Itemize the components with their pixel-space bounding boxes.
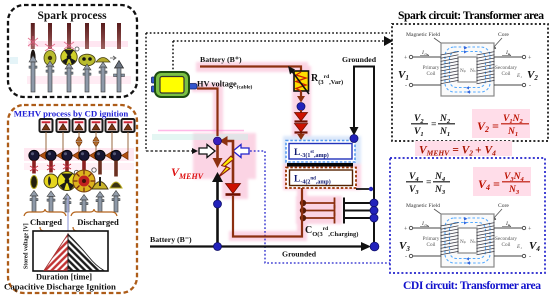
CD charge symbol 3 bbox=[73, 119, 86, 132]
graph discharged area (black hatch) bbox=[68, 234, 104, 271]
capacitor bank right plates bbox=[344, 198, 374, 224]
arrowhead into junction (left) bbox=[220, 136, 228, 146]
svg-text:Spark process: Spark process bbox=[37, 10, 107, 22]
junction dot battery/electrode bbox=[214, 243, 222, 251]
black dashed pointer to spark gap bbox=[146, 148, 198, 154]
arrow down from resistor bbox=[297, 91, 305, 103]
MEHV plug 5 bbox=[92, 150, 112, 212]
svg-text:V2: V2 bbox=[527, 69, 538, 82]
svg-text:Charged: Charged bbox=[30, 217, 62, 227]
inductor box L-3 (1st amp) bbox=[286, 141, 355, 163]
white block arrow left (CDI indicator) bbox=[233, 145, 249, 158]
spark process box border bbox=[8, 5, 137, 97]
arrow into L-3 box bbox=[297, 133, 305, 140]
wire right branch from junction bbox=[227, 141, 233, 183]
spark plug 3 (spark process) bbox=[61, 23, 79, 92]
svg-text:=: = bbox=[431, 120, 436, 130]
MEHV title bbox=[14, 109, 129, 119]
svg-text:Stored voltage [V]: Stored voltage [V] bbox=[24, 223, 30, 269]
caption capacitive discharge ignition bbox=[4, 282, 116, 292]
svg-text:Spark circuit: Transformer are: Spark circuit: Transformer area bbox=[398, 9, 544, 22]
label discharged bbox=[77, 217, 119, 227]
feed lines from CD symbols bbox=[46, 132, 128, 153]
svg-text:CDI circuit: Transformer area: CDI circuit: Transformer area bbox=[403, 279, 541, 292]
wire battery B- (ground rail) bbox=[150, 242, 371, 251]
label charged bbox=[30, 217, 62, 227]
brace discharged bbox=[71, 209, 117, 216]
label R(3rd, Var) bbox=[311, 73, 343, 86]
svg-text:V4: V4 bbox=[529, 240, 540, 253]
pink highlight glows for circuit wires bbox=[192, 62, 361, 241]
svg-text:Grounded: Grounded bbox=[282, 250, 317, 259]
equation V2 = V1N2/N1 (red) bbox=[472, 109, 530, 138]
junction node (HV) bbox=[214, 137, 222, 145]
label Grounded (top) bbox=[342, 55, 377, 64]
label HV voltage(cable) bbox=[197, 80, 252, 91]
CDI circuit panel border bbox=[390, 158, 545, 273]
svg-text:Discharged: Discharged bbox=[77, 217, 119, 227]
label C(3rd, Charging) bbox=[305, 225, 358, 238]
ignition device (HV generator) bbox=[152, 72, 198, 97]
brace pointers to graph bbox=[40, 227, 89, 234]
spark plug 2 (spark process) bbox=[44, 23, 56, 92]
ground wire top (pi shape) bbox=[354, 67, 374, 247]
MEHV plug 6 bbox=[110, 150, 128, 212]
decorative highlighter bands near junction bbox=[152, 131, 248, 141]
diode D1 (red) bbox=[295, 110, 308, 122]
spark plug 6 (spark process) bbox=[114, 23, 125, 92]
spark plug 4 (spark process) bbox=[79, 23, 95, 92]
wire battery B+ bbox=[200, 67, 301, 72]
svg-text:Battery (B⁺): Battery (B⁺) bbox=[200, 55, 242, 64]
CD charge symbol 2 bbox=[57, 119, 70, 132]
diode D3 (red) at gap branch bbox=[226, 184, 241, 195]
CD charge symbol 5 bbox=[106, 119, 119, 132]
MEHV plug 4 bbox=[73, 150, 96, 212]
junction dot ground rail end bbox=[370, 242, 379, 251]
decorative pink marks spark box bbox=[10, 41, 131, 84]
label V1 bbox=[398, 69, 409, 82]
wire L-4 to ground bus bbox=[356, 187, 374, 191]
equation V4 = V3N4/N3 (red) bbox=[473, 167, 531, 196]
spark circuit panel title bbox=[398, 9, 544, 22]
equation V2/V1 = N2/N1 bbox=[411, 114, 455, 138]
svg-text:V3: V3 bbox=[409, 185, 419, 196]
discharge arrows under symbols 3 and 4 bbox=[76, 136, 99, 147]
junction dot at L-3 ground bbox=[350, 135, 358, 143]
capacitor bank left junction dots bbox=[300, 200, 306, 221]
transformer core bar bbox=[287, 163, 353, 167]
variable resistor R(3rd,Var) bbox=[288, 66, 309, 94]
equation V_MEHV = V2 + V4 bbox=[415, 141, 512, 158]
MEHV plug 3 bbox=[58, 150, 80, 212]
MEHV plug 2 bbox=[44, 150, 63, 212]
svg-text:V1: V1 bbox=[398, 69, 409, 82]
label Battery (B-) bbox=[150, 235, 192, 244]
label Battery (B+) bbox=[200, 55, 242, 64]
equation V4/V3 = N4/N3 bbox=[406, 172, 450, 196]
charged/discharged divider line bbox=[67, 196, 69, 234]
spark lightning bolt bbox=[218, 156, 234, 178]
spark plug 1 (spark process) bbox=[28, 23, 38, 92]
blue dotted link to CDI panel bbox=[250, 151, 390, 263]
graph y-axis label bbox=[24, 223, 30, 269]
svg-text:Capacitive Discharge Ignition: Capacitive Discharge Ignition bbox=[4, 282, 116, 292]
arrowhead into spark panel bbox=[384, 36, 393, 46]
spark process title bbox=[37, 10, 107, 22]
decorative pink band MEHV bbox=[24, 148, 134, 170]
diode D2 (red) bbox=[295, 124, 308, 133]
brace charged bbox=[24, 209, 66, 216]
svg-text:N1: N1 bbox=[439, 127, 450, 138]
label V2 bbox=[527, 69, 538, 82]
svg-text:N3: N3 bbox=[434, 185, 446, 196]
svg-text:R(3rd,Var): R(3rd,Var) bbox=[311, 73, 343, 86]
spark circuit panel border bbox=[392, 24, 548, 141]
svg-text:V3: V3 bbox=[399, 240, 410, 253]
CD charge symbol 4 bbox=[90, 119, 103, 132]
dotted probe line to spark circuit panel (top) bbox=[146, 33, 390, 151]
label V_MEHV bbox=[171, 165, 204, 181]
wire HV cable bbox=[197, 89, 218, 137]
label V4 bbox=[529, 240, 540, 253]
junction dot on electrode wire bbox=[214, 200, 222, 208]
wire capacitor feed (brown loop) bbox=[233, 188, 302, 237]
svg-text:Duration [time]: Duration [time] bbox=[36, 273, 92, 282]
svg-text:V1: V1 bbox=[414, 127, 424, 138]
MEHV process box border bbox=[8, 105, 137, 293]
svg-text:Grounded: Grounded bbox=[342, 55, 377, 64]
graph charged area (red hatch) bbox=[44, 234, 68, 271]
graph axis box bbox=[33, 231, 108, 271]
svg-text:Battery (B⁻): Battery (B⁻) bbox=[150, 235, 192, 244]
inductor box L-4 (2nd amp) bbox=[286, 168, 356, 189]
svg-text:CO(3rd,Charging): CO(3rd,Charging) bbox=[305, 225, 358, 238]
bottom electrode arrow (black) bbox=[212, 172, 223, 246]
transformer T1 (spark) bbox=[404, 32, 532, 96]
junction dot below resistor bbox=[297, 103, 305, 111]
transformer T2 (CDI) bbox=[404, 203, 532, 267]
top electrode arrow (brown) bbox=[213, 145, 223, 168]
arrowhead ground into L-3 bbox=[350, 127, 359, 136]
capacitor bus junction dots bbox=[370, 199, 378, 222]
label Grounded (bottom) bbox=[282, 250, 317, 259]
white block arrow right (spark indicator) bbox=[199, 145, 215, 158]
CD charge symbol 6 bbox=[122, 119, 135, 132]
svg-text:MEHV process by CD ignition: MEHV process by CD ignition bbox=[14, 109, 129, 119]
CDI circuit panel title bbox=[403, 279, 541, 292]
svg-text:=: = bbox=[426, 178, 431, 188]
capacitor bank C1 left plates bbox=[302, 198, 335, 224]
label V3 bbox=[399, 240, 410, 253]
graph x-axis label bbox=[36, 273, 92, 282]
spark plug 5 (spark process) bbox=[96, 23, 116, 92]
CD charge symbol 1 bbox=[40, 119, 53, 132]
MEHV plug 1 bbox=[29, 150, 46, 212]
